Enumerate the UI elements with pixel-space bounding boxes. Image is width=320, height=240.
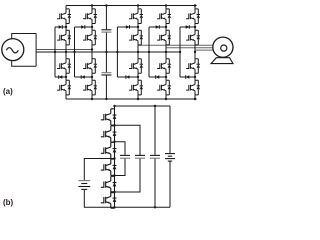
svg-text:(a): (a) bbox=[3, 87, 13, 96]
svg-text:(b): (b) bbox=[3, 198, 14, 207]
